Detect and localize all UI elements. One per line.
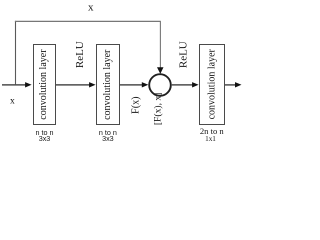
wire adder to conv3 bbox=[171, 84, 194, 86]
svg-text:convolution layer: convolution layer bbox=[38, 49, 49, 120]
svg-text:[F(x), x]: [F(x), x] bbox=[153, 93, 164, 126]
svg-text:F(x): F(x) bbox=[131, 96, 142, 114]
svg-text:1x1: 1x1 bbox=[205, 135, 216, 143]
arrowhead into adder top bbox=[157, 67, 164, 74]
wire input bbox=[2, 84, 26, 86]
svg-text:convolution layer: convolution layer bbox=[206, 49, 217, 120]
wire output bbox=[225, 84, 237, 86]
svg-text:ReLU: ReLU bbox=[74, 41, 86, 68]
conv layer 2 box bbox=[97, 45, 120, 125]
wire skip connection vertical left bbox=[15, 21, 17, 85]
arrowhead output bbox=[235, 82, 242, 87]
arrowhead into conv layer 3 bbox=[192, 82, 199, 87]
svg-text:x: x bbox=[88, 2, 94, 14]
svg-text:ReLU: ReLU bbox=[178, 41, 190, 68]
adder circle bbox=[149, 74, 171, 96]
conv layer 1 box bbox=[34, 45, 56, 125]
svg-text:3x3: 3x3 bbox=[102, 134, 114, 143]
arrowhead into conv layer 2 bbox=[89, 82, 96, 87]
svg-text:3x3: 3x3 bbox=[39, 134, 51, 143]
wire conv2 to adder bbox=[120, 84, 144, 86]
svg-text:convolution layer: convolution layer bbox=[102, 49, 113, 120]
wire skip connection top horizontal bbox=[15, 20, 161, 22]
arrowhead into adder left bbox=[142, 82, 149, 87]
arrowhead into conv layer 1 bbox=[25, 82, 32, 87]
wire skip connection drop to adder bbox=[159, 21, 161, 69]
conv layer 3 box bbox=[200, 45, 225, 125]
svg-text:x: x bbox=[10, 97, 15, 107]
wire conv1 to conv2 bbox=[56, 84, 91, 86]
